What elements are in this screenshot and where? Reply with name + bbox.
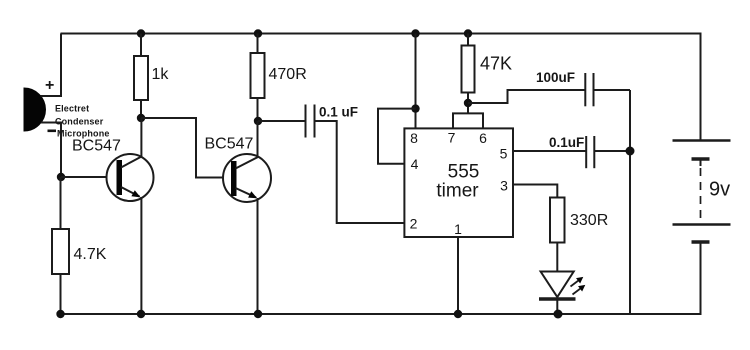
- svg-text:555: 555: [448, 162, 480, 183]
- node A junction dot: [57, 173, 65, 181]
- svg-text:4: 4: [411, 156, 419, 172]
- wire top rail to battery +: [700, 34, 702, 141]
- wire node A to resistor 4.7K: [60, 177, 62, 229]
- wire LED to bottom rail: [556, 299, 558, 314]
- microphone MIC1 body: [24, 88, 46, 131]
- junction dot top rail at 1k: [137, 29, 145, 37]
- wire C3 to right column: [594, 150, 630, 152]
- transistor Q1 BC547: [107, 154, 154, 201]
- battery stub below short plate: [700, 159, 702, 166]
- junction dot Q2 emitter at rail: [254, 310, 262, 318]
- svg-text:330R: 330R: [570, 212, 608, 229]
- capacitor C1 0.1uF left plate: [305, 105, 307, 138]
- junction dot pin8 / pin4 node: [411, 104, 419, 112]
- svg-text:0.1 uF: 0.1 uF: [319, 105, 358, 120]
- battery BT1 short plate top: [692, 157, 710, 160]
- wire Q1 collector to node B: [140, 118, 142, 157]
- wire C2 to right column: [594, 89, 631, 91]
- LED D1 cathode bar: [539, 297, 576, 301]
- LED light arrow 2: [570, 282, 587, 297]
- wire R1 to node B: [140, 100, 142, 118]
- capacitor C2 100uF left plate: [584, 73, 586, 106]
- battery dashed cell link: [700, 168, 702, 220]
- junction dot top rail at 47K: [464, 29, 472, 37]
- wire node C to capacitor C1: [258, 120, 306, 122]
- wire top rail to resistor 1k: [140, 34, 142, 57]
- LED D1 triangle: [541, 272, 574, 298]
- wire R5 to LED: [556, 243, 558, 272]
- battery BT1 long plate top: [673, 139, 731, 142]
- svg-text:0.1uF: 0.1uF: [549, 135, 584, 150]
- wire R3 to pins 7-6 bracket: [467, 93, 469, 114]
- svg-text:6: 6: [479, 130, 487, 146]
- node C junction dot: [254, 117, 262, 125]
- resistor R2 470R: [251, 53, 265, 98]
- wire bracket to pin 4: [378, 109, 416, 164]
- junction dot top rail at pin8 line: [411, 29, 419, 37]
- wire mic - to node A: [60, 123, 62, 178]
- svg-text:7: 7: [448, 130, 456, 146]
- node D junction dot (47K / pins 7-6 / 100uF): [464, 99, 472, 107]
- svg-text:BC547: BC547: [205, 136, 254, 153]
- capacitor C3 0.1uF right plate: [593, 136, 595, 168]
- svg-text:1: 1: [454, 221, 462, 237]
- capacitor C2 100uF right plate: [593, 73, 595, 106]
- svg-text:9v: 9v: [709, 179, 730, 201]
- wire top rail to pin 8: [415, 34, 417, 129]
- wire right column to bottom rail: [629, 90, 631, 314]
- svg-text:4.7K: 4.7K: [74, 246, 107, 263]
- battery BT1 long plate bottom: [673, 223, 731, 226]
- wire pin 3 to resistor 330R: [513, 185, 557, 198]
- junction dot pin 1 at rail: [454, 310, 462, 318]
- svg-text:timer: timer: [436, 181, 479, 202]
- battery BT1 short plate bottom: [692, 240, 710, 243]
- resistor R4 4.7K: [52, 229, 69, 274]
- resistor R3 47K: [462, 46, 475, 93]
- wire C1 to 555 pin 2: [315, 121, 405, 223]
- mic + terminal stub: [41, 95, 63, 97]
- svg-text:1k: 1k: [152, 66, 170, 83]
- wire R4 to bottom rail: [60, 274, 62, 314]
- wire top rail to resistor 47K: [467, 34, 469, 46]
- resistor R1 1k: [134, 56, 148, 100]
- svg-text:5: 5: [500, 146, 508, 162]
- svg-text:Electret: Electret: [55, 104, 89, 114]
- wire node B to Q2 base: [141, 118, 231, 178]
- wire Q2 emitter to bottom rail: [257, 198, 259, 314]
- junction dot LED at rail: [554, 310, 563, 319]
- svg-text:BC547: BC547: [72, 138, 121, 155]
- junction dot bottom-left corner: [56, 310, 64, 318]
- resistor R5 330R: [550, 198, 565, 243]
- wire top rail to resistor 470R: [257, 34, 259, 54]
- svg-text:2: 2: [410, 216, 418, 232]
- wire node A to Q1 base: [61, 176, 117, 178]
- junction dot top rail at 470R: [254, 29, 262, 37]
- wire Q1 emitter to bottom rail: [140, 197, 142, 314]
- wire R2 to node C: [257, 98, 259, 121]
- svg-text:47K: 47K: [480, 54, 512, 74]
- svg-text:Condenser: Condenser: [55, 117, 104, 127]
- capacitor C1 0.1uF right plate: [314, 105, 316, 138]
- junction dot Q1 emitter at rail: [137, 310, 145, 318]
- wire pin 5 to capacitor C3: [513, 150, 586, 152]
- wire Q2 collector to node C: [257, 121, 259, 157]
- IC U1 555 timer box: [404, 128, 513, 237]
- node B junction dot: [137, 114, 145, 122]
- wire node D to capacitor 100uF: [468, 90, 585, 103]
- svg-text:470R: 470R: [269, 66, 307, 83]
- transistor Q2 BC547: [223, 154, 271, 202]
- svg-text:100uF: 100uF: [536, 70, 575, 85]
- wire pin 1 to bottom rail: [457, 237, 459, 314]
- node E junction dot: [626, 147, 635, 156]
- label minus sign: [48, 130, 57, 133]
- svg-text:3: 3: [500, 178, 508, 194]
- svg-text:8: 8: [410, 130, 418, 146]
- wire top-left drop to microphone +: [60, 34, 62, 98]
- svg-text:+: +: [45, 77, 54, 94]
- wire top rail: [61, 33, 702, 35]
- wire battery - to bottom rail: [700, 242, 702, 314]
- LED light arrow 1: [568, 274, 585, 289]
- mic - terminal stub: [41, 122, 62, 124]
- wire bracket shorting pins 7 and 6: [453, 113, 483, 128]
- capacitor C3 0.1uF left plate: [585, 136, 587, 168]
- wire bottom rail: [61, 313, 702, 315]
